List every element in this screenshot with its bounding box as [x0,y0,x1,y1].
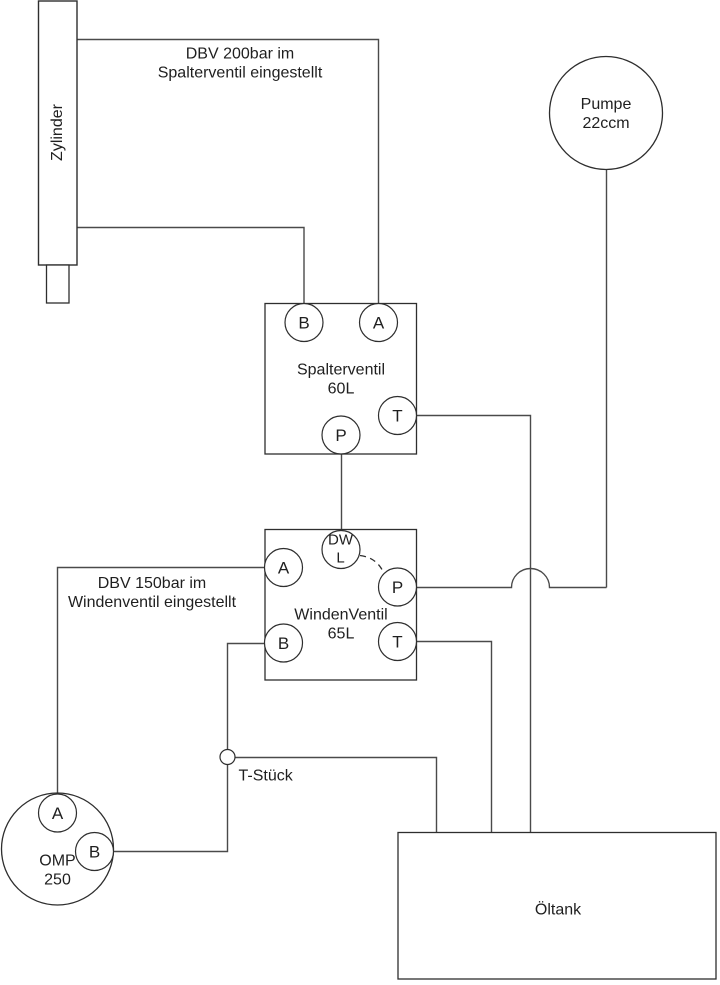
wire cylinder top to valve A [77,40,379,304]
port P of WindenVentil [379,568,417,606]
tank Oeltank box [398,833,716,980]
wire WindenVentil B to T-Stueck [228,644,265,750]
wire cylinder bottom to valve B [77,228,304,304]
label Spalterventil 60L [297,362,385,398]
wire T-Stueck to tank [235,758,437,833]
pump Pumpe 22ccm [550,57,663,170]
wire Spalterventil P down to WindenVentil DW [341,454,343,531]
svg-text:OMP: OMP [39,853,75,870]
wire OMP B to T-Stueck [114,765,228,852]
motor OMP 250 body [2,793,114,905]
svg-text:DBV 150bar im: DBV 150bar im [98,575,207,592]
svg-text:T: T [392,407,402,426]
valve WindenVentil 65L box [265,530,417,681]
svg-text:22ccm: 22ccm [582,115,629,132]
port B of OMP [76,833,114,871]
port A of Spalterventil [360,304,398,342]
svg-text:B: B [298,314,309,333]
port B of Spalterventil [285,304,323,342]
svg-text:WindenVentil: WindenVentil [294,607,387,624]
port P of Spalterventil [322,416,360,454]
wire Spalterventil T to tank (vertical trunk) [417,416,531,833]
svg-text:Windenventil eingestellt: Windenventil eingestellt [68,594,237,611]
svg-text:Spalterventil eingestellt: Spalterventil eingestellt [158,65,323,82]
wire WindenVentil A to left DBV riser [58,568,265,795]
label WindenVentil 65L [294,607,387,643]
svg-text:L: L [336,550,344,567]
label DBV 150bar im Windenventil eingestellt [68,575,237,611]
port T of Spalterventil [379,397,417,435]
svg-text:B: B [89,843,100,862]
label Pumpe 22ccm [581,96,632,132]
port A of WindenVentil [265,549,303,587]
valve Spalterventil 60L box [265,304,417,455]
dashed link DW to P [360,556,384,574]
svg-text:Spalterventil: Spalterventil [297,362,385,379]
port B of WindenVentil [265,624,303,662]
svg-text:Pumpe: Pumpe [581,96,632,113]
label OMP 250 [39,853,75,889]
svg-text:DW: DW [328,532,354,549]
wire WindenVentil P to pump line with hop over trunk [417,569,607,588]
svg-text:A: A [52,804,64,823]
svg-text:65L: 65L [328,626,355,643]
label DBV 200bar im Spalterventil eingestellt [158,46,323,82]
port T of WindenVentil [379,623,417,661]
svg-text:A: A [278,559,290,578]
svg-text:250: 250 [44,872,71,889]
svg-text:Zylinder: Zylinder [49,103,66,161]
svg-text:60L: 60L [328,381,355,398]
port A of OMP [39,794,77,832]
svg-text:T: T [392,633,402,652]
cylinder Zylinder body [39,1,78,265]
wire WindenVentil T to tank [417,642,492,833]
svg-text:P: P [335,426,346,445]
junction T-Stueck [220,750,235,765]
wire pump down to P line [606,170,608,588]
svg-text:A: A [373,314,385,333]
svg-text:P: P [392,578,403,597]
svg-text:DBV 200bar im: DBV 200bar im [186,46,295,63]
svg-text:Öltank: Öltank [535,901,582,919]
svg-text:B: B [278,634,289,653]
port DW L of WindenVentil [322,531,360,569]
svg-text:T-Stück: T-Stück [239,768,294,785]
cylinder rod [47,265,70,303]
